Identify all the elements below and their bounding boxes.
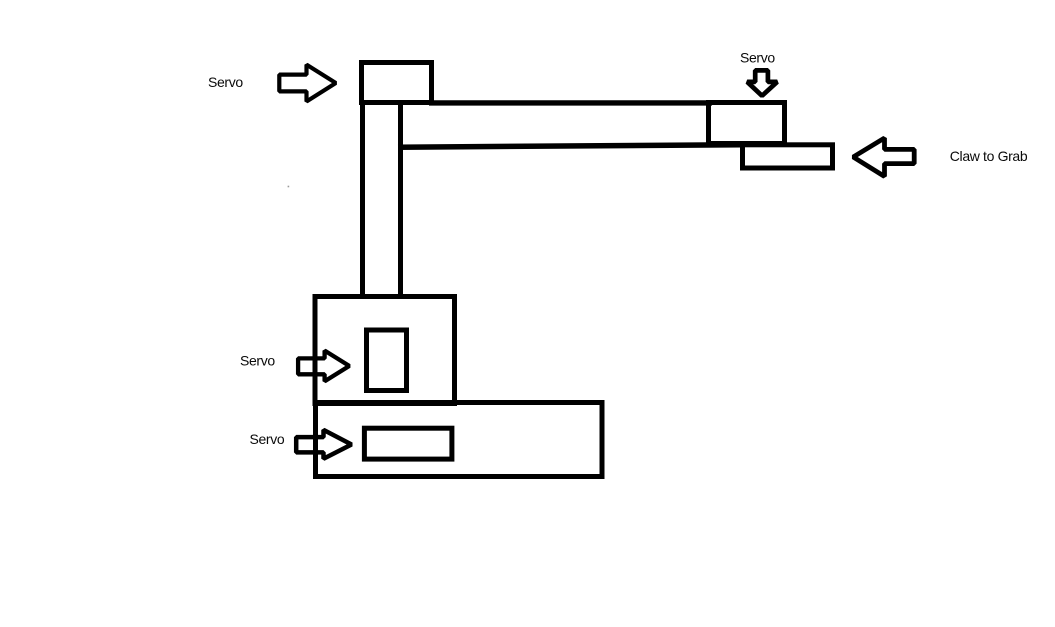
svg-text:Claw to Grab: Claw to Grab: [950, 148, 1028, 164]
arrow (pointing right at shoulder servo): [298, 351, 349, 382]
svg-text:Servo: Servo: [240, 353, 275, 369]
horizontal arm top edge (wire): [429, 100, 712, 105]
arrow (pointing left at claw block): [853, 138, 914, 176]
horizontal arm bottom edge (wire): [398, 145, 743, 147]
claw block: [743, 145, 833, 168]
svg-text:Servo: Servo: [208, 74, 243, 90]
top servo block: [362, 63, 432, 103]
base box: [316, 403, 603, 477]
arrow (pointing right at base servo): [296, 430, 351, 459]
shoulder servo block (inner): [367, 330, 407, 391]
svg-text:Servo: Servo: [250, 431, 285, 447]
arrow (top right, pointing down at end servo block): [747, 70, 777, 95]
svg-text:Servo: Servo: [740, 50, 775, 66]
end servo block: [709, 103, 785, 144]
arrow (top left, pointing right at top servo block): [279, 65, 336, 102]
stray dot: [288, 186, 290, 188]
vertical arm left edge (wire): [360, 103, 365, 296]
shoulder box: [315, 297, 455, 404]
vertical arm right edge (wire): [398, 104, 403, 296]
base servo block (inner): [364, 428, 452, 459]
